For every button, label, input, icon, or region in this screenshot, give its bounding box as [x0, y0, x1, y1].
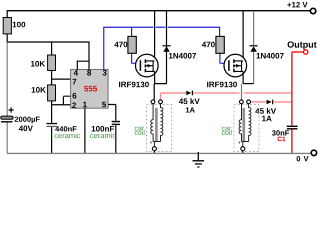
- wire 10K feed: [51, 42, 53, 56]
- pin 3: [103, 70, 107, 76]
- diode D2 1N4007 right: [253, 11, 255, 84]
- pin 7: [73, 79, 77, 85]
- ref label C1: [278, 137, 286, 142]
- capacitor 100nF ceramic: [112, 121, 120, 123]
- node 0V terminal: [311, 150, 316, 155]
- wire left rail lower: [6, 122, 8, 153]
- ground: [197, 152, 199, 160]
- value label 40V: [19, 126, 33, 132]
- wire top-left drop to R 100: [6, 10, 8, 17]
- transformer T1 car coil: [147, 105, 172, 152]
- node +12V supply terminal: [310, 8, 315, 13]
- pin 4: [74, 70, 78, 76]
- resistor 10K lower: [48, 85, 56, 101]
- value label 440nF: [55, 126, 76, 131]
- wire pin 1 to ground: [84, 108, 86, 153]
- value label 10K lower: [32, 87, 46, 93]
- label car coil right: [222, 127, 231, 131]
- pin 6: [72, 93, 76, 99]
- resistor 470 right: [216, 36, 224, 53]
- node Output terminal: [304, 50, 308, 54]
- value label 45 kV right: [255, 108, 276, 114]
- timer 555 U1 body: [71, 70, 109, 109]
- wire 0V bottom rail: [7, 152, 311, 154]
- part label IRF9130 right: [207, 82, 237, 88]
- value label 1A left: [186, 107, 195, 112]
- wire HV red rail from T1: [161, 93, 292, 102]
- label ceramic right: [90, 133, 116, 139]
- value label 30nF: [272, 130, 289, 135]
- net label Output: [288, 41, 317, 49]
- pin 1: [83, 102, 87, 108]
- value label 100nF: [92, 126, 114, 132]
- pin 5: [102, 102, 106, 108]
- label car coil left: [135, 127, 144, 131]
- resistor 470 left: [128, 36, 136, 53]
- resistor 100: [3, 18, 11, 34]
- transistor Q1 IRF9130: [154, 11, 156, 61]
- wire Q2 drain join: [243, 83, 254, 85]
- wire Q1 drain join: [154, 84, 166, 100]
- value label 1A right: [262, 116, 272, 122]
- diode 45kV 1A right: [267, 100, 272, 105]
- wire blue pin 3 net: [103, 27, 229, 70]
- wire supply node row: [7, 41, 89, 43]
- capacitor 2000uF electrolytic: [1, 116, 13, 119]
- transformer T2 car coil: [234, 105, 259, 152]
- wire left rail upper: [6, 42, 8, 116]
- label ceramic left: [55, 133, 81, 139]
- capacitor 440nF ceramic: [46, 123, 57, 124]
- transistor Q2 IRF9130: [242, 11, 244, 61]
- capacitor 2000uF plus sign: [9, 107, 14, 112]
- wire 10K junction to pin 7: [52, 71, 71, 85]
- value label 45 kV left: [179, 98, 200, 104]
- part label 1N4007 right: [257, 53, 284, 59]
- wire pin 5 to 100nF: [108, 105, 116, 121]
- net label 0 V: [297, 156, 301, 161]
- wire R 100 bottom lead: [6, 34, 8, 43]
- value label 10K upper: [31, 61, 45, 67]
- diode 45kV 1A left: [186, 91, 191, 96]
- value label 470 left: [114, 42, 127, 48]
- wire output red net: [292, 52, 304, 153]
- wire pins 8 and 4 supply: [77, 42, 89, 70]
- part label 555: [84, 86, 97, 92]
- wire +12V top rail: [7, 10, 310, 12]
- value label 470 right: [202, 42, 215, 48]
- part label 1N4007 left: [169, 53, 196, 59]
- capacitor C1 30nF: [287, 126, 298, 127]
- value label 2000uF: [15, 117, 40, 124]
- wire 10K bottom to pins 2 and 6: [52, 96, 71, 123]
- diode D1 1N4007 left: [166, 11, 168, 84]
- resistor 10K upper: [48, 55, 56, 71]
- value label 100: [13, 22, 26, 28]
- pin 2: [72, 102, 76, 108]
- part label IRF9130 left: [119, 82, 149, 88]
- net label +12 V: [287, 2, 307, 7]
- pin 8: [87, 70, 91, 76]
